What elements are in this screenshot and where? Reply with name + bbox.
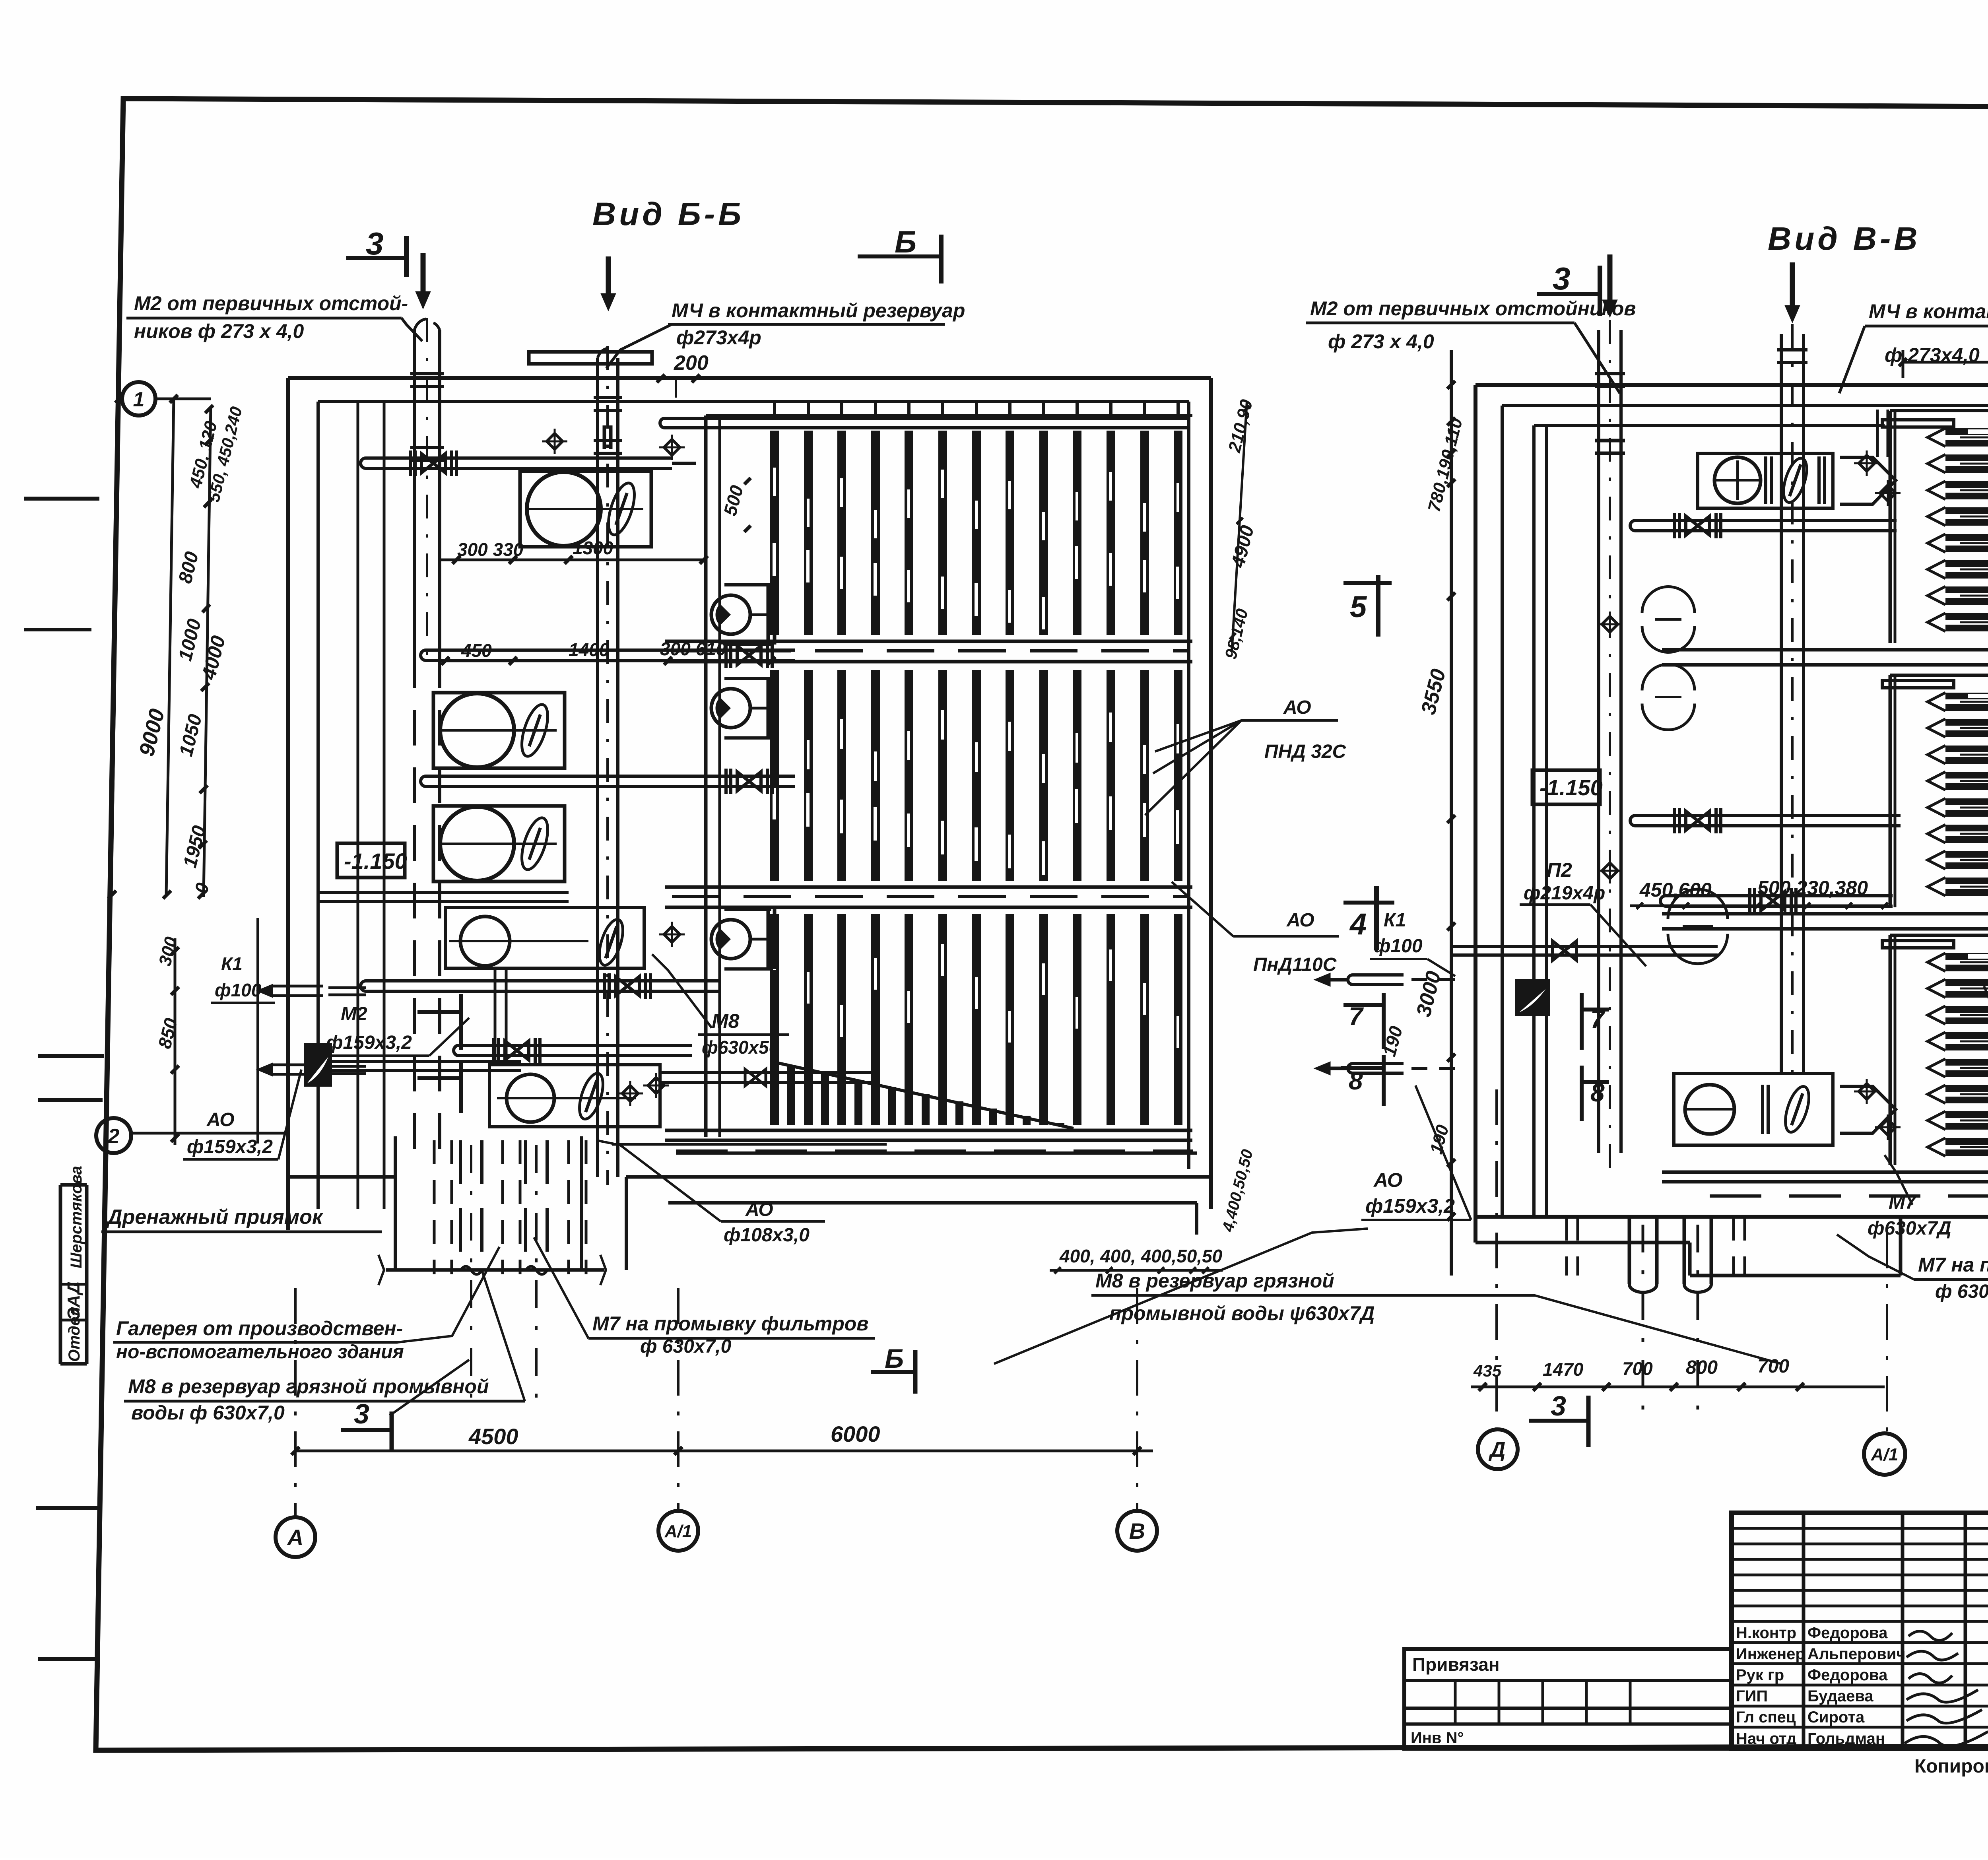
svg-text:К1: К1 [221, 953, 243, 974]
right tank partition top [1534, 424, 1885, 427]
dim chain ticks [205, 405, 213, 413]
svg-text:7: 7 [1349, 1002, 1364, 1031]
right pit ledge [1475, 1241, 1690, 1245]
left margin tick y1254 [24, 497, 99, 501]
pipe run right y2390 [1451, 945, 1718, 948]
filter bar B2-12 [1140, 670, 1149, 881]
svg-text:воды ф 630х7,0: воды ф 630х7,0 [131, 1402, 285, 1424]
leader АО right [1415, 1085, 1471, 1220]
svg-text:7: 7 [1590, 1005, 1606, 1033]
wall crossing pipe y2680 [318, 1060, 521, 1063]
svg-text:Инженер: Инженер [1736, 1645, 1805, 1663]
leader М7 промывка left [534, 1237, 588, 1338]
section marks 7-8 left view [417, 1010, 461, 1014]
svg-text:ф 630х7Д: ф 630х7Д [1935, 1281, 1988, 1302]
under-floor dashed line [676, 1149, 1193, 1153]
svg-text:А/1: А/1 [664, 1522, 692, 1541]
dim line 400s [1050, 1269, 1223, 1272]
svg-text:700: 700 [1622, 1358, 1653, 1379]
svg-text:450: 450 [461, 640, 492, 661]
svg-text:Будаева: Будаева [1807, 1687, 1873, 1705]
tube T1-1 [1945, 428, 1988, 435]
svg-text:Инв N°: Инв N° [1411, 1729, 1464, 1747]
svg-text:3: 3 [366, 226, 384, 261]
header inlet stub right view [1876, 410, 1879, 457]
dim chain line ticks [204, 406, 211, 897]
leader П2 [1590, 905, 1646, 966]
assembly A4 diamond taps [664, 926, 680, 942]
pit dashed pipes [433, 1140, 436, 1274]
top assembly diamonds [1859, 455, 1875, 471]
tube T3-3 [1945, 1006, 1988, 1013]
axis line В left [1136, 1288, 1138, 1512]
pit level pipe y2710 [660, 1071, 879, 1074]
band inlet valve circle y1546 [711, 595, 750, 634]
pump assembly A3 box [433, 806, 565, 881]
tube T3-7 [1945, 1111, 1988, 1118]
tube band 3 bottom rail a [1662, 1171, 1988, 1174]
filter bar B3-4 [871, 914, 880, 1125]
tube T2-7 [1945, 851, 1988, 858]
big pipe down b (М7) [524, 1140, 527, 1266]
section mark 3 bottom-right view [1529, 1419, 1588, 1423]
dim 5300 line [1903, 361, 1988, 364]
pipe run y1165 dashed extension [672, 462, 712, 465]
band inlet valve circle y2362 [711, 920, 750, 959]
section mark Б bottom-left view [871, 1370, 915, 1374]
svg-text:ф 630х7,0: ф 630х7,0 [640, 1336, 732, 1357]
svg-text:Вид Б-Б: Вид Б-Б [592, 196, 744, 232]
tube T2-2 [1945, 719, 1988, 726]
small table Привязан [1404, 1649, 1732, 1749]
title block vertical 4785 [1901, 1513, 1905, 1749]
pipe run with valve y2480 [361, 981, 414, 991]
tube separator rail 2b [1662, 927, 1988, 931]
wall crossing pipe y2255 [318, 891, 569, 894]
svg-text:АО: АО [1373, 1169, 1403, 1191]
filter bar B3-12 [1140, 914, 1149, 1125]
svg-text:АО: АО [206, 1109, 235, 1130]
axis circle 1 [122, 382, 155, 415]
leader М4 right [1839, 326, 1865, 393]
drain stub right y2687 [1348, 1064, 1404, 1073]
svg-text:ф108х3,0: ф108х3,0 [724, 1225, 810, 1246]
pump assembly A4 slant valve [595, 917, 628, 968]
right pit wall a [1688, 1243, 1692, 1276]
pipe run right y1322 [1630, 520, 1684, 531]
right tank inner left wall [1501, 406, 1504, 1217]
tube T1-7 [1945, 586, 1988, 593]
svg-text:МЧ в контактный резервуар: МЧ в контактный резервуар [672, 299, 965, 322]
top tee cap М4 [529, 352, 652, 364]
bar band 1 top ticks [773, 403, 776, 418]
filter bar B2-13 [1174, 670, 1182, 881]
section marks 8 right view [1341, 1066, 1384, 1070]
pump assembly A1 slant valve [603, 480, 639, 538]
tube T3-1 [1945, 953, 1988, 960]
right tank partition wall a [1532, 425, 1536, 1217]
svg-text:А/1: А/1 [1871, 1445, 1898, 1464]
svg-text:Гольдман: Гольдман [1807, 1730, 1885, 1747]
band 3 short interleaved bars and staircase [787, 1066, 795, 1125]
pipe run with valve y1965 [421, 776, 474, 786]
svg-text:Сирота: Сирота [1807, 1709, 1865, 1726]
filter bar B1-13 [1174, 431, 1182, 635]
filter bar B1-10 [1073, 431, 1081, 635]
svg-text:ГИП: ГИП [1736, 1687, 1768, 1705]
svg-text:ф159х3,2: ф159х3,2 [326, 1032, 412, 1053]
left pit step wall [625, 1177, 628, 1270]
filter bar B2-4 [871, 670, 880, 881]
pump assembly A1 circle [527, 472, 601, 546]
svg-text:М7 на промывку фильтров: М7 на промывку фильтров [592, 1312, 868, 1335]
tube band 3 bottom rail b [1662, 1180, 1988, 1184]
drain stub arrow y2492 (left) [267, 986, 323, 996]
dim ticks left drain [174, 938, 177, 1145]
left margin tick y2766 [38, 1098, 103, 1102]
band separator rail 2b [665, 906, 1192, 909]
title block name rows [1732, 1641, 1988, 1644]
axis line А/1 left [677, 1288, 679, 1512]
top assembly box (right) [1698, 453, 1833, 508]
axis circle А/1 right [1864, 1433, 1905, 1475]
filter bar B1-5 [905, 431, 913, 635]
left margin tick y2656 [38, 1054, 104, 1058]
filter bar B2-7 [972, 670, 981, 881]
band separator rail 1 dashes [672, 649, 1189, 652]
section marks 7 right view [1343, 1003, 1384, 1007]
pipe run with valve y2642 [454, 1045, 507, 1056]
leader М8 ф630 [652, 954, 712, 1028]
tube band 3 header cap [1882, 941, 1954, 948]
band separator rail 1b [665, 660, 1192, 664]
filter bar B3-11 [1107, 914, 1115, 1125]
svg-text:П2: П2 [1547, 859, 1572, 881]
svg-text:Нач отд: Нач отд [1736, 1730, 1796, 1747]
tube T1-2 [1945, 454, 1988, 461]
filter bar B1-3 [837, 431, 846, 635]
svg-text:А: А [287, 1525, 303, 1550]
tube band 1 header cap [1882, 420, 1954, 427]
title block outer frame [1732, 1513, 1988, 1749]
right tank inner top [1502, 404, 1988, 407]
leader АО ф108 [596, 1140, 721, 1221]
title block vertical 4536 [1802, 1513, 1806, 1749]
staircase line band 3 [775, 1062, 1074, 1128]
tube separator rail 1a [1662, 648, 1988, 652]
band inlet valve circle y1781 [711, 689, 750, 728]
axis circle В left [1117, 1511, 1157, 1551]
filter bar B2-6 [938, 670, 947, 881]
filter bar B3-7 [972, 914, 981, 1125]
right tank outer left wall [1474, 385, 1477, 1243]
svg-text:ф159х3,2: ф159х3,2 [187, 1136, 273, 1157]
svg-text:ф159х3,2: ф159х3,2 [1365, 1195, 1455, 1217]
filter bar B2-8 [1006, 670, 1014, 881]
svg-text:-1.150: -1.150 [1540, 775, 1603, 800]
left tank bottom outer right part [626, 1175, 1211, 1179]
right pit wall b [1899, 1217, 1903, 1276]
axis 2 line [131, 1132, 288, 1135]
section mark 4 left side [1343, 901, 1394, 905]
svg-text:Рук гр: Рук гр [1736, 1666, 1784, 1684]
pipe riser М2 (left view) [413, 330, 416, 652]
svg-text:1: 1 [133, 388, 145, 411]
svg-text:300 610: 300 610 [660, 639, 726, 659]
svg-text:ников ф 273 х 4,0: ников ф 273 х 4,0 [134, 320, 304, 342]
filter bar B1-9 [1039, 431, 1048, 635]
axis 1 dim line [155, 398, 211, 400]
filter box top [706, 414, 1192, 417]
dim line under 300-330 [441, 559, 704, 561]
filter bar B2-2 [804, 670, 813, 881]
pipe riser М2 (right view) [1597, 330, 1600, 1153]
pipe riser М4 (right view) [1780, 334, 1783, 1074]
svg-text:АО: АО [745, 1199, 773, 1220]
svg-text:М2 от первичных отстой-: М2 от первичных отстой- [134, 292, 408, 315]
svg-text:ф219х4р: ф219х4р [1524, 883, 1605, 904]
svg-text:ф273х4р: ф273х4р [676, 326, 761, 349]
drain stub right y2464 [1348, 975, 1404, 984]
filter bar B2-11 [1107, 670, 1115, 881]
assembly A5 diamond taps [622, 1085, 638, 1101]
svg-text:М2: М2 [341, 1004, 367, 1025]
right dim chain vertical [1450, 350, 1453, 1276]
svg-text:Дренажный приямок: Дренажный приямок [106, 1206, 324, 1229]
svg-text:М8 в резервуар грязной промывн: М8 в резервуар грязной промывной [128, 1375, 489, 1398]
leader М8 right [994, 1229, 1368, 1364]
right tank partition wall b [1545, 425, 1548, 1217]
filter bar B3-10 [1073, 914, 1081, 1125]
axis circle А [276, 1517, 315, 1557]
filter bar B1-11 [1107, 431, 1115, 635]
left tank bottom outer left part [288, 1175, 395, 1179]
elevation box -1.150 (left) [337, 843, 405, 878]
svg-text:промывной воды ψ630х7Д: промывной воды ψ630х7Д [1109, 1302, 1375, 1324]
filter box inner left wall [718, 415, 721, 1137]
svg-text:Д: Д [1489, 1438, 1506, 1462]
svg-text:М8: М8 [712, 1010, 740, 1032]
pipe arrow М2 top [421, 253, 426, 292]
title block vertical 4943 [1964, 1513, 1967, 1749]
filter bar B3-5 [905, 914, 913, 1125]
filter bar B3-3 [837, 914, 846, 1125]
section mark 3 top-left view [346, 256, 406, 260]
pump assembly A3 slant valve [516, 815, 553, 872]
tube T2-8 [1945, 878, 1988, 884]
dashed pump circles right view [1642, 587, 1695, 613]
svg-text:700: 700 [1757, 1356, 1789, 1377]
big pipe down a (М8) [459, 1140, 462, 1266]
filter bar B1-4 [871, 431, 880, 635]
pump assembly A5 slant valve [575, 1071, 608, 1122]
filter bar B1-7 [972, 431, 981, 635]
band separator rail 2a [665, 885, 1192, 889]
svg-text:ф630х50: ф630х50 [702, 1037, 779, 1058]
svg-text:2: 2 [108, 1125, 120, 1148]
left pit break marks [379, 1255, 384, 1285]
tube T3-5 [1945, 1059, 1988, 1066]
filter bar B2-1 [770, 670, 779, 881]
big pipe down right b [1683, 1217, 1686, 1284]
svg-text:450,600: 450,600 [1639, 879, 1712, 901]
leader М4 left view [606, 324, 672, 368]
tube T3-8 [1945, 1138, 1988, 1145]
filter bar B3-1 [770, 914, 779, 1125]
tube T2-1 [1945, 693, 1988, 699]
filter bar B3-9 [1039, 914, 1048, 1125]
svg-text:ПНД 32С: ПНД 32С [1264, 741, 1347, 762]
tube T2-3 [1945, 746, 1988, 752]
svg-text:3: 3 [354, 1398, 369, 1429]
svg-text:ф100: ф100 [1374, 936, 1423, 957]
svg-text:Отдел: Отдел [66, 1307, 83, 1362]
left margin tick y3792 [36, 1506, 99, 1510]
big pipe down right a [1628, 1217, 1631, 1284]
pipe run right y2266 [1660, 896, 1714, 906]
leader АО ПНД32С [1153, 720, 1241, 773]
right under-floor dashed [1710, 1194, 1988, 1198]
leader М2 right [1574, 323, 1620, 393]
band separator rail 1a [665, 640, 1192, 643]
pipe riser М4 (left view) [596, 358, 599, 1177]
axis line А [294, 1288, 297, 1518]
svg-text:500,230,380: 500,230,380 [1757, 877, 1868, 899]
svg-text:-1.150: -1.150 [344, 848, 407, 874]
svg-text:8: 8 [1590, 1078, 1605, 1107]
filter bar B3-8 [1006, 914, 1014, 1125]
svg-text:Федорова: Федорова [1807, 1666, 1888, 1684]
dim line 450-1400 [445, 660, 771, 662]
pointed header duct bottom [1840, 1086, 1896, 1133]
svg-text:6000: 6000 [831, 1421, 880, 1446]
pipe A4 to A5 [494, 968, 497, 1065]
leader М7 ф630 [1885, 1155, 1912, 1205]
pump assembly A4 circle [460, 916, 510, 966]
right tank outer top [1475, 383, 1988, 387]
svg-text:5: 5 [1350, 590, 1367, 624]
filter bar B1-2 [804, 431, 813, 635]
axis circle Д [1478, 1429, 1518, 1469]
svg-text:Галерея от производствен-: Галерея от производствен- [116, 1317, 403, 1340]
bottom assembly (right) [1685, 1085, 1734, 1134]
filter bar B3-13 [1174, 914, 1182, 1125]
drain stub arrow y2690 (left) [267, 1065, 323, 1074]
signature squiggles [1908, 1631, 1952, 1641]
tube T3-4 [1945, 1032, 1988, 1039]
assembly A1 diamond taps [547, 433, 563, 449]
leader М8 резервуар left [482, 1270, 525, 1401]
filter bar B1-8 [1006, 431, 1014, 635]
svg-text:АО: АО [1283, 697, 1311, 718]
tube separator rail 2a [1662, 912, 1988, 916]
svg-text:АО: АО [1286, 910, 1314, 931]
dim line 450-600 right [1630, 905, 1885, 907]
pump assembly A4 box [445, 907, 644, 968]
pipe arrow М4 top [606, 256, 611, 294]
svg-text:МЧ в контактный резервуар: МЧ в контактный резервуар [1869, 300, 1988, 322]
tube T1-4 [1945, 507, 1988, 514]
left tank inner right wall [1187, 402, 1190, 1169]
axis line А/1 right [1886, 1233, 1888, 1432]
tube band 2 frame [1889, 675, 1892, 907]
svg-text:1470: 1470 [1543, 1359, 1584, 1380]
svg-text:но-вспомогательного здания: но-вспомогательного здания [116, 1342, 404, 1363]
band 3 bottom rail b [665, 1139, 1192, 1142]
svg-text:ф630х7Д: ф630х7Д [1868, 1218, 1951, 1239]
svg-text:ф100: ф100 [215, 980, 262, 1000]
tube T3-2 [1945, 979, 1988, 986]
filter box left wall [704, 415, 708, 1137]
left pit right wall [580, 1136, 583, 1270]
axis circle А/1 left [658, 1511, 698, 1551]
right tank bottom [1475, 1215, 1988, 1219]
lower collector line [668, 1201, 1197, 1205]
drain extension line [256, 918, 259, 1144]
tube band 2 header cap [1882, 681, 1954, 688]
svg-text:Б: Б [885, 1344, 904, 1374]
filter bar B1-6 [938, 431, 947, 635]
svg-text:В: В [1129, 1518, 1145, 1544]
pump assembly A2 box [433, 693, 565, 768]
svg-text:Н.контр: Н.контр [1736, 1624, 1796, 1642]
svg-text:М7: М7 [1889, 1191, 1917, 1213]
filter bar B2-10 [1073, 670, 1081, 881]
left tank gallery channel wall a [357, 402, 359, 1209]
pump assembly A3 circle [440, 807, 514, 881]
lower collector step [1195, 1203, 1198, 1235]
svg-text:800: 800 [1686, 1357, 1718, 1378]
bottom dim line left view [295, 1450, 1153, 1452]
right dim chain line left view [1232, 402, 1247, 652]
svg-text:Б: Б [895, 224, 916, 259]
pipe arrow М4 top right [1790, 262, 1795, 306]
filter bar B2-5 [905, 670, 913, 881]
svg-text:Альперович: Альперович [1807, 1645, 1906, 1663]
svg-text:Привязан: Привязан [1412, 1654, 1500, 1675]
dim chain line 4000 [166, 399, 174, 895]
svg-text:Вид В-В: Вид В-В [1768, 221, 1921, 257]
axis line Д [1495, 1089, 1498, 1430]
svg-text:400, 400, 400,50,50: 400, 400, 400,50,50 [1059, 1246, 1223, 1266]
funnel symbol (left) [305, 1044, 331, 1085]
svg-text:4: 4 [1349, 907, 1367, 941]
funnel symbol (right) [1516, 980, 1549, 1015]
tube separator rail 1b [1662, 663, 1988, 667]
svg-text:1400: 1400 [569, 639, 610, 660]
left tank outer top wall [288, 376, 1211, 380]
svg-text:4500: 4500 [468, 1424, 518, 1449]
left tank gallery channel wall b [383, 402, 386, 1209]
svg-text:1300: 1300 [573, 538, 613, 558]
leader АО ПНД110С [1172, 882, 1233, 936]
leader галерея [398, 1247, 499, 1342]
pump assembly A5 circle [507, 1074, 554, 1122]
filter bar B1-1 [770, 431, 779, 635]
pipe run right y2064 [1630, 815, 1684, 826]
filter bar B2-9 [1039, 670, 1048, 881]
pump assembly A1 box [520, 471, 651, 547]
leader АО left [278, 1070, 301, 1159]
under-floor line [676, 1151, 1197, 1155]
svg-text:М7 на промывку фильтров: М7 на промывку фильтров [1918, 1254, 1988, 1276]
dim chain line 9000 [111, 386, 119, 897]
left tank outer right wall [1209, 378, 1213, 1209]
svg-text:К1: К1 [1384, 910, 1406, 931]
filter bar B3-6 [938, 914, 947, 1125]
left margin tick y1584 [24, 628, 91, 631]
left tank outer left wall [286, 378, 290, 1230]
